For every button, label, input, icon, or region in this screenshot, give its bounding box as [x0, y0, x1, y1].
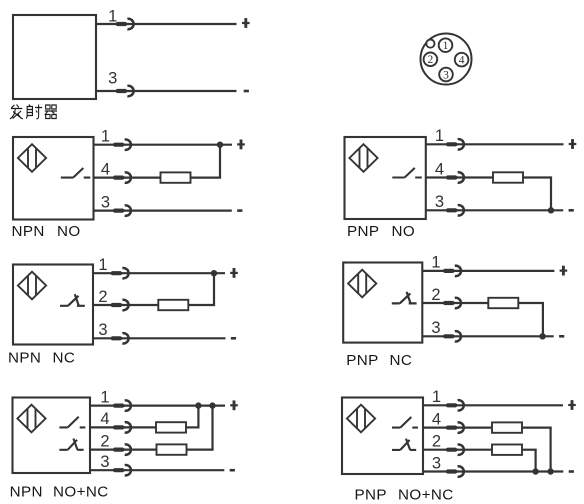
connector contact pin 1 (PNP NC): [443, 266, 461, 276]
- supply terminal (PNP NC): [559, 335, 564, 338]
svg-text:NO+NC: NO+NC: [53, 484, 109, 501]
wire pin 3: box through connector to - terminal (PNP NO+NC): [423, 470, 563, 472]
wire: load resistor to corner (PNP NO+NC): [522, 449, 537, 451]
wire: load resistor to corner (PNP NO): [523, 176, 552, 178]
load resistor on pin 2 (NPN NO+NC): [157, 444, 187, 454]
svg-text:NO: NO: [392, 223, 416, 240]
sensor body box (NPN NO): [13, 137, 94, 220]
load resistor on pin 2 (PNP NC): [488, 298, 518, 308]
vertical wire pin 4 branch to rail (PNP NO): [550, 178, 552, 211]
wire pin 3: box through connector to - terminal (PNP NC): [422, 335, 553, 337]
- supply terminal (NPN NO+NC): [230, 469, 235, 472]
wire: load resistor to corner (NPN NO): [191, 177, 222, 179]
junction on + rail at x=220 (NPN NO): [217, 142, 223, 148]
connector contact pin 3 (NPN NC): [111, 333, 129, 343]
svg-text:3: 3: [435, 193, 444, 211]
wire pin 2: box through connector to load resistor (NPN NC): [93, 304, 158, 306]
vertical wire pin 2 branch to rail (NPN NO+NC): [211, 406, 213, 450]
svg-text:PNP: PNP: [346, 352, 378, 369]
wire pin 2: box through connector to load resistor (PNP NC): [422, 302, 488, 304]
junction on + rail at x=198.4 (NPN NO+NC): [195, 402, 201, 408]
connector contact pin 4 (NPN NO): [113, 172, 131, 182]
connector contact pin 1 (NPN NO+NC): [113, 400, 131, 410]
vertical wire pin 2 branch to rail (PNP NC): [542, 303, 544, 336]
svg-text:2: 2: [100, 432, 109, 450]
svg-text:3: 3: [108, 70, 117, 88]
vertical wire pin 4 branch to rail (NPN NO): [219, 145, 221, 178]
wire: load resistor to corner (NPN NO+NC): [186, 426, 200, 428]
svg-text:3: 3: [443, 69, 449, 81]
svg-text:2: 2: [431, 286, 440, 304]
sensor body box (PNP NO): [345, 137, 426, 219]
NO switch contact (PNP NO+NC): [392, 417, 418, 428]
svg-text:NC: NC: [53, 350, 76, 367]
wire pin 3: box through connector to - terminal (PNP NO): [426, 209, 563, 211]
svg-text:NPN: NPN: [8, 350, 41, 367]
junction on - rail at x=550.6 (PNP NO+NC): [547, 468, 553, 474]
sensor body box (NPN NC): [13, 265, 93, 345]
connector contact pin 3 (NPN NO): [113, 205, 131, 215]
sensor body box (PNP NO+NC): [342, 398, 423, 475]
junction on + rail at x=212.5 (NPN NO+NC): [209, 402, 215, 408]
connector contact pin 1 (PNP NO+NC): [446, 400, 464, 410]
wire pin 1: box through connector to + terminal (NPN NC): [93, 272, 225, 274]
wire pin 4: box through connector to load resistor (NPN NO): [94, 177, 161, 179]
wire pin 2: box through connector to load resistor (NPN NO+NC): [90, 449, 157, 451]
vertical wire pin 4 branch to rail (NPN NO+NC): [197, 406, 199, 428]
svg-text:3: 3: [100, 453, 109, 471]
M12 connector face outer circle: [421, 34, 472, 85]
connector contact pin 2 (PNP NC): [443, 298, 461, 308]
wire pin 1: box through connector to + terminal (PNP NC): [422, 270, 554, 272]
wire: transmitter box through connector to - terminal: [96, 90, 237, 92]
svg-text:3: 3: [432, 454, 441, 472]
wire pin 1: box through connector to + terminal (PNP NO): [426, 143, 564, 145]
wire: load resistor to corner (PNP NC): [518, 302, 544, 304]
NO switch contact (NPN NO+NC): [59, 417, 85, 428]
caption text 发射器 (transmitter): [10, 105, 57, 120]
+ supply terminal (NPN NO): [237, 143, 245, 145]
wire pin 1: box through connector to + terminal (PNP NO+NC): [423, 404, 563, 406]
connector contact pin 1 (transmitter): [116, 19, 134, 29]
junction on - rail at x=551 (PNP NO): [548, 207, 554, 213]
svg-text:1: 1: [431, 254, 440, 272]
photoelectric emitter symbol (NPN NO): [18, 144, 46, 172]
+ supply terminal (transmitter): [242, 22, 250, 24]
load resistor on pin 4 (PNP NO): [493, 172, 523, 182]
svg-text:1: 1: [435, 127, 444, 145]
+ supply terminal (PNP NO): [569, 143, 577, 145]
vertical wire pin 4 branch to rail (PNP NO+NC): [549, 428, 551, 472]
NO switch contact (PNP NO): [392, 168, 422, 178]
svg-text:4: 4: [100, 410, 109, 428]
svg-text:1: 1: [101, 128, 110, 146]
sensor body box (NPN NO+NC): [13, 398, 91, 474]
connector contact pin 3 (PNP NO+NC): [446, 466, 464, 476]
svg-text:4: 4: [101, 160, 110, 178]
connector contact pin 2 (NPN NC): [111, 300, 129, 310]
svg-text:PNP: PNP: [355, 487, 387, 504]
connector keying notch: [426, 40, 434, 48]
photoelectric emitter symbol (NPN NO+NC): [17, 405, 45, 433]
photoelectric emitter symbol (PNP NC): [348, 270, 376, 298]
NC switch contact (NPN NC): [60, 294, 85, 306]
- supply terminal (PNP NO): [569, 209, 574, 212]
wire: load resistor to corner (PNP NO+NC): [522, 427, 552, 429]
connector contact pin 1 (PNP NO): [446, 139, 464, 149]
connector contact pin 4 (NPN NO+NC): [113, 422, 131, 432]
svg-text:1: 1: [100, 388, 109, 406]
svg-text:NPN: NPN: [10, 484, 43, 501]
M12 pin 3 circle: [439, 68, 453, 82]
wire: transmitter box through connector to + terminal: [96, 23, 237, 25]
svg-text:4: 4: [432, 410, 441, 428]
connector contact pin 2 (PNP NO+NC): [446, 445, 464, 455]
svg-text:1: 1: [108, 8, 117, 26]
connector contact pin 3 (PNP NO): [446, 205, 464, 215]
svg-text:1: 1: [443, 40, 449, 52]
svg-text:1: 1: [98, 256, 107, 274]
svg-text:NO: NO: [57, 223, 81, 240]
load resistor on pin 2 (PNP NO+NC): [492, 445, 522, 455]
photoelectric emitter symbol (NPN NC): [18, 272, 46, 300]
connector contact pin 4 (PNP NO): [446, 172, 464, 182]
svg-text:3: 3: [98, 321, 107, 339]
wire pin 3: box through connector to - terminal (NPN NO+NC): [90, 469, 224, 471]
+ supply terminal (PNP NC): [560, 270, 568, 272]
load resistor on pin 4 (PNP NO+NC): [492, 422, 522, 432]
wire pin 3: box through connector to - terminal (NPN NC): [93, 337, 226, 339]
+ supply terminal (NPN NC): [230, 272, 238, 274]
wire: load resistor to corner (NPN NO+NC): [187, 449, 214, 451]
svg-text:NO+NC: NO+NC: [398, 487, 454, 504]
svg-text:3: 3: [431, 319, 440, 337]
load resistor on pin 4 (NPN NO+NC): [156, 422, 186, 432]
photoelectric emitter symbol (PNP NO): [349, 144, 377, 172]
connector contact pin 3 (NPN NO+NC): [113, 465, 131, 475]
- supply terminal (NPN NO): [237, 209, 242, 212]
wire pin 3: box through connector to - terminal (NPN NO): [94, 210, 232, 212]
svg-text:4: 4: [459, 55, 465, 67]
svg-text:NPN: NPN: [12, 223, 45, 240]
vertical wire pin 2 branch to rail (PNP NO+NC): [534, 450, 536, 472]
+ supply terminal (PNP NO+NC): [568, 404, 576, 406]
connector contact pin 4 (PNP NO+NC): [446, 422, 464, 432]
connector contact pin 1 (NPN NC): [111, 268, 129, 278]
load resistor on pin 2 (NPN NC): [158, 300, 188, 310]
wire pin 4: box through connector to load resistor (PNP NO+NC): [423, 427, 492, 429]
NC switch contact (PNP NC): [392, 292, 417, 304]
connector contact pin 1 (NPN NO): [113, 140, 131, 150]
connector contact pin 3 (PNP NC): [443, 331, 461, 341]
junction on - rail at x=542.6 (PNP NC): [539, 333, 545, 339]
photoelectric emitter symbol (PNP NO+NC): [347, 405, 375, 433]
junction on + rail at x=214 (NPN NC): [211, 270, 217, 276]
svg-text:1: 1: [432, 388, 441, 406]
- supply terminal (transmitter): [244, 90, 249, 93]
svg-text:2: 2: [98, 288, 107, 306]
M12 pin 2 circle: [424, 53, 438, 67]
svg-text:2: 2: [428, 54, 434, 66]
M12 pin 1 circle: [439, 38, 453, 52]
wire pin 4: box through connector to load resistor (PNP NO): [426, 176, 493, 178]
M12 pin 4 circle: [455, 53, 469, 67]
svg-text:4: 4: [435, 160, 444, 178]
wire: load resistor to corner (NPN NC): [188, 304, 215, 306]
svg-text:NC: NC: [390, 352, 413, 369]
- supply terminal (PNP NO+NC): [569, 470, 574, 473]
wire pin 1: box through connector to + terminal (NPN NO+NC): [90, 405, 225, 407]
transmitter box 发射器: [13, 15, 96, 99]
svg-text:2: 2: [432, 433, 441, 451]
- supply terminal (NPN NC): [231, 337, 236, 340]
wire pin 2: box through connector to load resistor (PNP NO+NC): [423, 449, 492, 451]
connector contact pin 3 (transmitter): [116, 86, 134, 96]
connector contact pin 2 (NPN NO+NC): [113, 444, 131, 454]
NC switch contact (PNP NO+NC): [392, 439, 416, 450]
wire pin 1: box through connector to + terminal (NPN NO): [94, 144, 233, 146]
junction on - rail at x=535.6 (PNP NO+NC): [532, 468, 538, 474]
load resistor on pin 4 (NPN NO): [161, 172, 191, 182]
NO switch contact (NPN NO): [61, 168, 91, 178]
vertical wire pin 2 branch to rail (NPN NC): [213, 273, 215, 305]
svg-text:PNP: PNP: [347, 223, 379, 240]
sensor body box (PNP NC): [343, 263, 422, 343]
+ supply terminal (NPN NO+NC): [230, 404, 238, 406]
NC switch contact (NPN NO+NC): [59, 439, 83, 450]
svg-text:3: 3: [101, 193, 110, 211]
wire pin 4: box through connector to load resistor (NPN NO+NC): [90, 426, 156, 428]
